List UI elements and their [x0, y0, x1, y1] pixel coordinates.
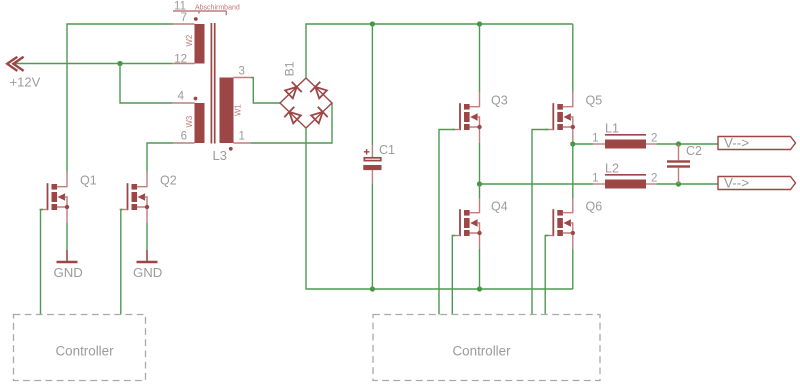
polarity dot W1 — [229, 147, 233, 151]
pin 4 stub — [172, 102, 195, 104]
wire Q5 source to mid node B — [572, 143, 574, 144]
junction node D — [676, 181, 681, 186]
diode top-right — [310, 82, 328, 100]
junction top rail at C1 — [370, 21, 375, 26]
wire Q6 source to bottom rail — [572, 249, 574, 289]
svg-text:1: 1 — [592, 133, 598, 145]
junction node on +12V net — [117, 61, 122, 66]
winding W2 — [195, 24, 205, 64]
svg-text:C2: C2 — [686, 144, 702, 158]
wire L1 pin 2 to output node C — [657, 143, 719, 145]
C1 bottom lead — [371, 170, 373, 184]
junction bottom rail at C1 — [370, 286, 375, 291]
pin 6 stub — [173, 142, 195, 144]
inductor L2 — [592, 162, 657, 189]
svg-text:4: 4 — [178, 90, 185, 102]
wire Q2 source to GND — [146, 223, 148, 250]
junction node C — [676, 141, 681, 146]
C1 plus sign — [364, 149, 370, 155]
wire Q4 source to bottom rail — [479, 249, 481, 289]
capacitor C2 — [667, 144, 702, 184]
wire node A down to Q4 drain — [479, 184, 481, 198]
svg-text:Q4: Q4 — [491, 200, 508, 214]
pin 12 stub — [172, 63, 195, 65]
wire top rail down to Q3 drain — [479, 24, 481, 92]
svg-text:7: 7 — [181, 12, 187, 24]
polarity dot W2 — [194, 17, 198, 21]
wire node A to L2 pin 1 — [480, 183, 594, 185]
C1 bottom plate (filled) — [363, 165, 381, 170]
svg-text:L2: L2 — [605, 162, 619, 176]
wire from pin 3 to bridge AC1 (left vertex) — [251, 78, 280, 104]
svg-text:Q5: Q5 — [586, 94, 603, 108]
wire Q2 gate to controller 1 — [121, 210, 123, 315]
wire from transformer pin 7 to Q1 drain — [67, 24, 173, 173]
inductor L1 — [592, 122, 657, 149]
controller box 1 (dashed) — [14, 315, 146, 381]
svg-text:3: 3 — [239, 65, 245, 77]
wire Q4 gate to controller 2 — [452, 236, 455, 315]
wire Q1 gate to controller 1 — [41, 210, 44, 315]
controller box 2 (dashed) — [373, 315, 600, 381]
svg-text:Q3: Q3 — [491, 94, 508, 108]
C1 top plate (hollow) — [364, 158, 381, 161]
pin 3 stub — [234, 77, 252, 79]
svg-text:W2: W2 — [185, 35, 194, 47]
wire net +12V horizontal from supply arrow to transformer pin 12 — [13, 63, 172, 65]
svg-text:Controller: Controller — [56, 344, 115, 359]
pin 7 stub — [173, 23, 195, 25]
svg-text:Abschirmband: Abschirmband — [195, 5, 240, 12]
junction node A (Q3/Q4 midpoint) — [477, 181, 482, 186]
pin 11 shield lead — [173, 11, 226, 15]
svg-text:1: 1 — [239, 130, 245, 142]
wire Q1 source to GND — [66, 223, 68, 250]
C1 top lead — [371, 145, 373, 157]
wire Q6 gate to controller 2 — [545, 236, 548, 315]
wire from pin 1 to bridge AC2 (right vertex) — [251, 103, 332, 143]
svg-text:1: 1 — [592, 173, 598, 185]
svg-text:11: 11 — [174, 1, 186, 13]
svg-text:6: 6 — [181, 130, 187, 142]
junction top rail at Q3 — [477, 21, 482, 26]
svg-text:+12V: +12V — [10, 75, 41, 90]
diode top-left — [284, 82, 302, 100]
svg-text:2: 2 — [651, 173, 657, 185]
svg-text:Q2: Q2 — [160, 174, 177, 188]
transistor Q5 — [545, 91, 575, 143]
diode bottom-right — [310, 107, 328, 125]
wire DC+ bus: bridge top vertex to top rail — [306, 24, 573, 78]
svg-text:Q1: Q1 — [80, 174, 97, 188]
ground symbol GND (Q1) — [54, 250, 83, 280]
winding W1 — [220, 78, 234, 144]
wire Q3 gate to controller 2 — [439, 130, 455, 315]
transformer L3 — [172, 1, 251, 164]
svg-text:Q6: Q6 — [586, 200, 603, 214]
capacitor C1 — [363, 143, 395, 184]
transistor Q2 — [120, 171, 150, 223]
wire C1 bottom to bottom rail — [371, 184, 373, 289]
svg-text:GND: GND — [54, 265, 83, 280]
core line right — [214, 23, 216, 144]
core line left — [210, 23, 212, 144]
wire +12V branch down to transformer pin 4 — [120, 64, 172, 104]
polarity dot W3 — [194, 97, 198, 101]
wire top rail down to Q5 drain — [572, 24, 574, 92]
bridge rectifier B1 — [280, 61, 332, 128]
wire L2 pin 2 to output node D — [657, 183, 719, 185]
svg-text:L1: L1 — [605, 122, 619, 136]
svg-text:C1: C1 — [379, 143, 395, 157]
transistor Q4 — [452, 197, 482, 249]
wire node B down to Q6 drain — [572, 144, 574, 198]
svg-text:Controller: Controller — [453, 344, 512, 359]
svg-text:2: 2 — [651, 133, 657, 145]
ground symbol GND (Q2) — [133, 250, 162, 280]
svg-text:W1: W1 — [234, 104, 243, 116]
winding W3 — [195, 103, 205, 143]
svg-text:L3: L3 — [213, 148, 227, 163]
wire DC- : bridge bottom vertex down to bottom rail — [306, 128, 573, 289]
supply symbol +12V double chevron — [7, 57, 23, 71]
wire Q5 gate to controller 2 — [532, 130, 548, 315]
transistor Q1 — [40, 171, 70, 223]
diode bottom-left — [284, 107, 302, 125]
junction bottom rail at Q4 — [477, 286, 482, 291]
pin 1 stub — [234, 142, 252, 144]
transistor Q3 — [452, 91, 482, 143]
svg-text:12: 12 — [174, 53, 187, 65]
svg-text:GND: GND — [133, 265, 162, 280]
wire from transformer pin 6 to Q2 drain — [147, 143, 173, 173]
svg-text:B1: B1 — [282, 61, 296, 76]
junction node B (Q5/Q6 midpoint) — [570, 141, 575, 146]
svg-text:W3: W3 — [185, 116, 194, 128]
wire Q3 source to mid node A — [479, 143, 481, 184]
transistor Q6 — [545, 197, 575, 249]
wire top rail down to C1 — [371, 24, 373, 145]
wire node B to L1 pin 1 — [573, 143, 593, 145]
diamond outline — [280, 78, 332, 128]
